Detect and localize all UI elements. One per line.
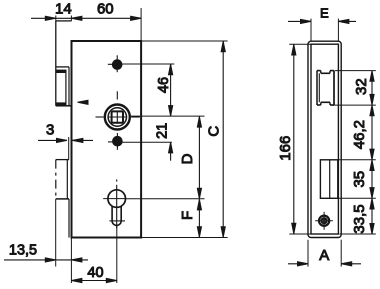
case top extension line [141, 40, 228, 42]
dimension F [198, 199, 200, 237]
dimension E [288, 20, 311, 22]
latch bolt detail [56, 66, 69, 68]
dimension 21 [169, 142, 173, 153]
svg-text:166: 166 [277, 136, 294, 161]
lower hole (filled) with centermarks [113, 136, 123, 146]
right dimension stack line [371, 71, 373, 234]
svg-text:3: 3 [46, 122, 54, 139]
dimension 13,5 [4, 259, 71, 261]
latch window in plate [316, 71, 318, 105]
deadbolt (front view, dash-dot front edge) [56, 159, 69, 161]
svg-text:32: 32 [353, 78, 370, 95]
upper hole (filled) with centermarks [112, 60, 122, 70]
dimension 46 [170, 64, 172, 116]
square spindle follower [105, 105, 130, 130]
svg-text:40: 40 [87, 265, 103, 281]
svg-text:33,5: 33,5 [351, 204, 368, 233]
dimension C [222, 41, 224, 237]
deadbolt slot in plate [320, 160, 337, 199]
case bottom extension line [141, 237, 228, 239]
svg-text:35: 35 [351, 171, 368, 188]
svg-text:21: 21 [154, 123, 170, 139]
cylinder centre extension line [126, 198, 205, 200]
svg-text:D: D [179, 153, 196, 164]
euro profile cylinder hole [108, 190, 126, 208]
dimension 14 and 60 line [31, 17, 141, 19]
svg-text:46: 46 [156, 77, 172, 93]
faceplate front view (side view outer plate) [308, 41, 341, 237]
svg-text:C: C [206, 126, 223, 137]
dimension D [198, 117, 200, 199]
dimension A [288, 263, 308, 265]
svg-text:14: 14 [55, 1, 72, 18]
faceplate edge line (front view) [68, 67, 70, 106]
dimension 3 [38, 139, 67, 141]
latch housing box top-left [55, 21, 57, 106]
svg-text:46,2: 46,2 [351, 120, 368, 149]
svg-text:F: F [179, 211, 196, 220]
extension lines right stack [335, 70, 376, 72]
dimension 40 [71, 280, 116, 282]
svg-text:E: E [320, 5, 329, 20]
svg-text:A: A [319, 247, 329, 264]
dimension 166 [293, 44, 295, 233]
small leader arrow at latch [78, 100, 89, 104]
fixing screw [319, 216, 329, 226]
lock case outline (front view) [72, 41, 142, 238]
lock case behind plate (inner box) [311, 44, 338, 234]
svg-text:60: 60 [97, 1, 114, 18]
svg-text:13,5: 13,5 [9, 243, 37, 259]
follower centre extension line [131, 115, 205, 117]
